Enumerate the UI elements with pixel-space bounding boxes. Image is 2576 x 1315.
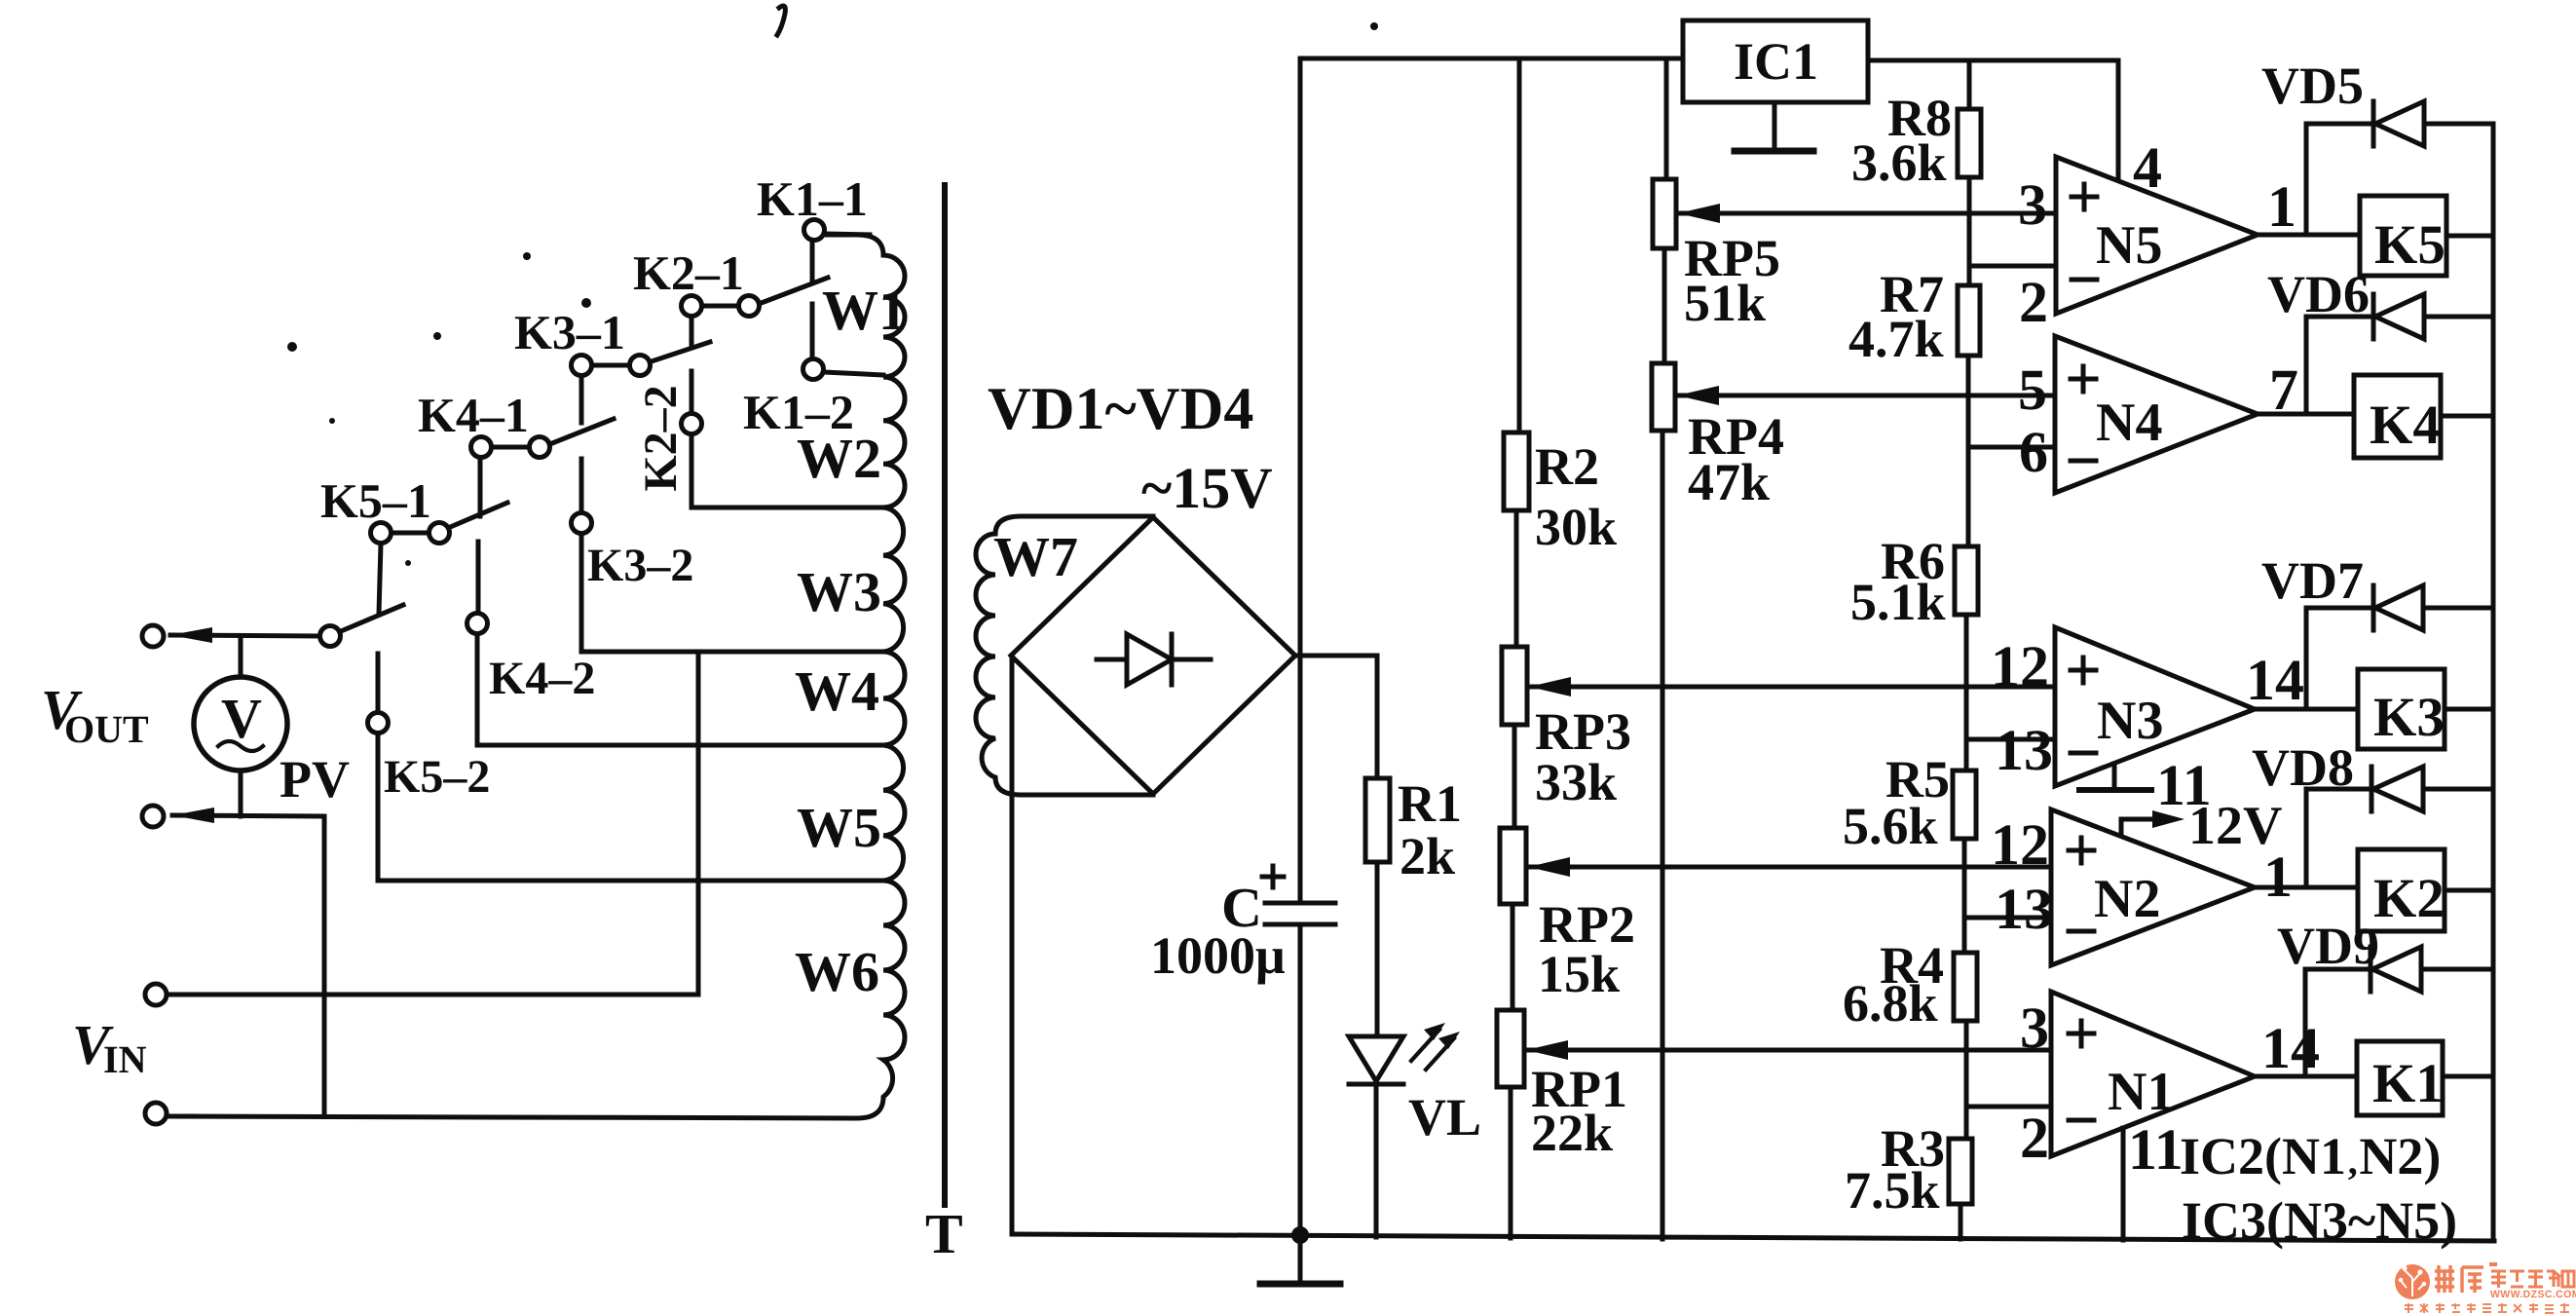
wire K4-2 to winding tap xyxy=(477,634,883,745)
svg-text:W5: W5 xyxy=(797,796,881,859)
label R8 3.6k xyxy=(1851,89,1952,192)
svg-text:K2–2: K2–2 xyxy=(635,385,687,491)
wire bridge right vertex to R1 xyxy=(1295,656,1377,778)
wire VD7 stub xyxy=(2304,608,2309,709)
wire K1-2 to winding tap xyxy=(824,372,883,375)
bottom bus wire xyxy=(1012,1234,2494,1241)
switch K5-2 contact xyxy=(368,713,389,733)
svg-text:30k: 30k xyxy=(1535,498,1617,556)
svg-text:4.7k: 4.7k xyxy=(1848,310,1944,368)
wire RP2 to RP1 xyxy=(1511,904,1515,1010)
wire VOUT lower with arrow xyxy=(172,808,324,823)
resistor R7 xyxy=(1958,285,1980,356)
svg-text:2k: 2k xyxy=(1400,827,1455,885)
op-amp N3 xyxy=(2055,627,2255,786)
svg-text:13: 13 xyxy=(1995,718,2053,782)
svg-text:5.1k: 5.1k xyxy=(1850,573,1946,631)
svg-text:4: 4 xyxy=(2133,135,2162,200)
wire R4 to R3 xyxy=(1964,1021,1969,1139)
wire K4 to bus xyxy=(2441,414,2493,419)
op-amp N4 xyxy=(2055,336,2258,493)
wire R2 chain top xyxy=(1517,58,1522,432)
svg-text:K3: K3 xyxy=(2373,687,2445,748)
wire N1 pin11 to bus xyxy=(2121,1128,2126,1240)
wire R2 to RP3 xyxy=(1514,510,1519,647)
switch K4-2 contact xyxy=(467,614,488,634)
plus N2 xyxy=(2069,838,2094,863)
potentiometer RP1 xyxy=(1497,1010,1524,1087)
wire N3 output xyxy=(2255,707,2358,712)
svg-text:VD9: VD9 xyxy=(2277,917,2379,975)
wire N5 pin2 from chain xyxy=(1969,264,2056,269)
diode VD5 xyxy=(2306,101,2493,146)
resistor R5 xyxy=(1953,770,1976,839)
wire K3-2 to winding tap xyxy=(581,534,883,652)
transformer core xyxy=(942,185,948,1205)
svg-text:K3–2: K3–2 xyxy=(587,540,693,591)
wiper wire RP4 to N4 pin5 xyxy=(1677,386,2055,405)
wire IC1 output to N5 pin4 xyxy=(1868,60,2118,182)
label VOUT xyxy=(41,678,149,751)
wire PV drop to VIN lower xyxy=(322,816,327,1116)
diode VD7 xyxy=(2306,585,2493,630)
wire drop to K4-2 xyxy=(476,542,481,613)
svg-text:W3: W3 xyxy=(797,560,881,623)
svg-text:K1: K1 xyxy=(2372,1053,2444,1114)
svg-text:K4: K4 xyxy=(2370,394,2441,456)
svg-text:IC2(N1‚N2): IC2(N1‚N2) xyxy=(2180,1127,2441,1185)
wire RP5 to RP4 xyxy=(1662,248,1667,363)
resistor R2 xyxy=(1504,432,1529,510)
wire VOUT upper with arrow xyxy=(170,627,320,643)
switch K1-1 top contact xyxy=(804,220,825,241)
switch K2-2 contact xyxy=(682,414,702,434)
svg-text:~15V: ~15V xyxy=(1141,456,1273,520)
wire RP3 to RP2 xyxy=(1512,725,1517,828)
relay K1 xyxy=(2357,1041,2443,1115)
voltmeter PV xyxy=(194,638,287,816)
wire K5 to bus xyxy=(2446,234,2493,239)
op-amp N1 xyxy=(2051,992,2255,1156)
terminal VIN upper xyxy=(145,984,167,1005)
svg-text:VL: VL xyxy=(1408,1088,1481,1146)
transformer primary winding W1-W6 xyxy=(168,235,905,1118)
potentiometer RP5 xyxy=(1653,179,1676,248)
wiper wire RP1 to N1 pin3 xyxy=(1526,1040,2051,1060)
wire N3 pin13 from chain xyxy=(1966,737,2055,742)
plus N4 xyxy=(2071,366,2096,392)
wire VIN upper xyxy=(168,993,698,997)
svg-text:1: 1 xyxy=(2267,174,2296,239)
svg-text:51k: 51k xyxy=(1684,274,1766,332)
svg-text:K5–1: K5–1 xyxy=(320,473,431,528)
diode VD9 xyxy=(2305,947,2493,992)
relay K5 xyxy=(2360,196,2446,276)
svg-text:K2: K2 xyxy=(2373,868,2445,929)
svg-text:N4: N4 xyxy=(2096,393,2162,453)
scan speck 1 xyxy=(777,6,785,35)
svg-text:14: 14 xyxy=(2261,1016,2320,1080)
plus N5 xyxy=(2072,184,2097,209)
wire VD5 stub xyxy=(2304,124,2309,235)
minus N5 xyxy=(2072,278,2097,282)
switch K1-1 blade xyxy=(759,278,828,304)
wire drop below K3-1 xyxy=(579,376,584,423)
svg-text:K3–1: K3–1 xyxy=(514,305,625,359)
potentiometer RP3 xyxy=(1502,647,1527,725)
svg-text:13: 13 xyxy=(1995,877,2053,941)
svg-text:33k: 33k xyxy=(1535,753,1617,811)
potentiometer RP4 xyxy=(1652,363,1675,431)
wire VIN lower to winding bottom xyxy=(168,1114,195,1119)
switch K5-1 contacts xyxy=(371,523,450,544)
diode VD6 xyxy=(2306,294,2493,339)
resistor R6 xyxy=(1955,546,1978,615)
ground IC1 xyxy=(1735,102,1813,151)
label RP4 47k xyxy=(1688,407,1784,511)
wire right bus xyxy=(2491,124,2496,1241)
svg-text:11: 11 xyxy=(2128,1117,2184,1182)
plus N3 xyxy=(2071,657,2096,683)
svg-text:12: 12 xyxy=(1991,634,2049,698)
svg-text:PV: PV xyxy=(280,750,350,808)
op-amp N2 xyxy=(2051,809,2255,965)
svg-text:R1: R1 xyxy=(1398,774,1462,833)
wire N4 output xyxy=(2258,412,2354,417)
LED VL xyxy=(1349,1036,1403,1084)
wire N1 pin2 from chain xyxy=(1966,1105,2051,1109)
wire K5-2 to winding tap xyxy=(378,733,883,881)
wire R5 to R4 xyxy=(1962,839,1967,953)
wire drop below K5-1 xyxy=(379,544,381,614)
minus N2 xyxy=(2069,929,2094,934)
LED arrows xyxy=(1411,1023,1460,1070)
label R2 30k xyxy=(1535,437,1617,556)
wire VD9 stub xyxy=(2303,969,2308,1076)
resistor R8 xyxy=(1958,109,1981,177)
wire drop to K3-2 xyxy=(579,459,584,513)
wiper wire RP3 to N3 pin12 xyxy=(1529,677,2055,696)
wire N2 output xyxy=(2255,885,2358,890)
scan speck 4 xyxy=(433,332,441,340)
label R6 5.1k xyxy=(1850,532,1946,631)
svg-text:VD5: VD5 xyxy=(2261,56,2364,115)
wire N4 pin6 from chain xyxy=(1968,445,2055,450)
wire RP5 drop from top rail xyxy=(1664,58,1669,179)
svg-text:W4: W4 xyxy=(795,659,879,723)
svg-text:VD1~VD4: VD1~VD4 xyxy=(988,376,1253,442)
label R7 4.7k xyxy=(1848,265,1944,368)
svg-text:6: 6 xyxy=(2019,420,2048,484)
minus N1 xyxy=(2069,1118,2094,1123)
label R1 2k xyxy=(1398,774,1462,885)
svg-text:2: 2 xyxy=(2020,1106,2049,1170)
switch K4-1 contacts xyxy=(471,437,550,458)
svg-text:12: 12 xyxy=(1991,812,2049,877)
wire VD8 stub xyxy=(2304,789,2309,887)
svg-text:N5: N5 xyxy=(2096,215,2162,276)
svg-text:W6: W6 xyxy=(795,940,879,1003)
label R5 5.6k xyxy=(1843,750,1950,855)
label RP3 33k xyxy=(1535,702,1631,811)
svg-text:K4–2: K4–2 xyxy=(489,653,595,704)
svg-text:22k: 22k xyxy=(1531,1104,1613,1162)
svg-text:N3: N3 xyxy=(2097,691,2163,751)
transformer secondary winding W7 xyxy=(976,516,1153,795)
potentiometer RP2 xyxy=(1500,828,1526,904)
switch VOUT selector contact xyxy=(320,626,341,647)
wire VIN upper riser to W3-W4 tap xyxy=(696,652,701,995)
svg-text:IC3(N3~N5): IC3(N3~N5) xyxy=(2182,1191,2457,1250)
wire RP4 to bus xyxy=(1661,431,1665,1239)
scan speck 6 xyxy=(329,418,335,424)
svg-text:5.6k: 5.6k xyxy=(1843,797,1938,855)
watermark weiku logo xyxy=(2395,1262,2576,1313)
op-amp N5 xyxy=(2056,157,2258,314)
label RP1 22k xyxy=(1531,1060,1627,1162)
svg-text:12V: 12V xyxy=(2188,796,2282,856)
wire K1-1 contact to winding top xyxy=(825,234,870,235)
wire drop below K2-1 xyxy=(690,317,694,347)
terminal VOUT lower xyxy=(142,806,164,827)
svg-text:WWW.DZSC.COM: WWW.DZSC.COM xyxy=(2490,1289,2576,1300)
relay K3 xyxy=(2358,669,2445,749)
scan speck 5 xyxy=(581,298,591,308)
terminal VIN lower xyxy=(145,1103,167,1124)
plus N1 xyxy=(2069,1021,2094,1046)
wire R6 to R5 xyxy=(1964,615,1969,770)
svg-text:7.5k: 7.5k xyxy=(1845,1161,1940,1220)
svg-text:IN: IN xyxy=(103,1037,147,1081)
wiper wire RP2 to N2 pin12 xyxy=(1528,857,2051,877)
switch VOUT selector blade xyxy=(341,605,403,631)
svg-text:15k: 15k xyxy=(1538,945,1620,1003)
label RP5 51k xyxy=(1684,229,1780,332)
bridge inner diode symbol xyxy=(1097,634,1211,685)
wire drop to K5-2 xyxy=(376,654,381,712)
svg-text:3: 3 xyxy=(2020,996,2049,1060)
wire +15V rail to capacitor xyxy=(1298,656,1303,901)
label VIN xyxy=(72,1013,147,1081)
switch K4-1 blade xyxy=(448,503,507,528)
svg-text:K5–2: K5–2 xyxy=(384,751,490,803)
svg-text:RP3: RP3 xyxy=(1535,702,1631,761)
svg-text:3: 3 xyxy=(2018,172,2047,237)
switch K3-1 blade xyxy=(547,419,614,445)
switch K3-1 contacts xyxy=(572,356,651,376)
wire RP1 to bus xyxy=(1509,1087,1513,1238)
arrow 12V supply xyxy=(2121,810,2184,836)
svg-text:N2: N2 xyxy=(2094,869,2160,929)
wire K2-2 to winding tap xyxy=(691,434,883,507)
wire drop to K1-2 xyxy=(810,304,815,358)
svg-text:47k: 47k xyxy=(1688,453,1770,511)
scan speck 7 xyxy=(405,560,411,566)
svg-text:K4–1: K4–1 xyxy=(418,388,529,442)
switch K1-2 contact xyxy=(803,359,824,380)
wire R8 top drop xyxy=(1967,60,1972,109)
svg-text:N1: N1 xyxy=(2108,1062,2174,1122)
diode VD8 xyxy=(2306,767,2493,811)
svg-text:R2: R2 xyxy=(1535,437,1599,496)
wire drop below K4-1 xyxy=(478,458,483,516)
svg-text:IC1: IC1 xyxy=(1734,32,1818,91)
svg-text:K5: K5 xyxy=(2374,214,2445,276)
svg-text:W1: W1 xyxy=(822,279,907,342)
svg-text:3.6k: 3.6k xyxy=(1851,133,1947,192)
wire bridge left vertex to bottom bus xyxy=(1010,656,1015,1234)
resistor R1 xyxy=(1365,778,1390,862)
svg-text:2: 2 xyxy=(2019,270,2048,334)
wire +15V rail top xyxy=(1300,58,1683,656)
wire K1 to bus xyxy=(2443,1074,2493,1079)
capacitor C xyxy=(1262,866,1335,924)
IC IC1 xyxy=(1683,20,1868,102)
wire drop to K2-2 xyxy=(690,371,694,414)
relay K2 xyxy=(2358,849,2445,931)
terminal VOUT upper xyxy=(142,625,164,647)
wire N5 output xyxy=(2258,233,2360,238)
bridge rectifier VD1-VD4 xyxy=(1011,517,1295,794)
wire N1 output xyxy=(2255,1074,2357,1079)
switch K3-2 contact xyxy=(572,513,592,534)
svg-text:VD7: VD7 xyxy=(2261,551,2364,610)
wire K2 to bus xyxy=(2445,888,2493,893)
scan speck 3 xyxy=(287,342,297,352)
minus N4 xyxy=(2071,459,2096,464)
ground symbol xyxy=(1260,1235,1340,1284)
wire capacitor to bus xyxy=(1298,926,1303,1235)
svg-text:14: 14 xyxy=(2246,648,2304,712)
ground N3 pin11 xyxy=(2079,764,2151,790)
wire R7 to R6 xyxy=(1966,356,1971,546)
svg-text:T: T xyxy=(925,1202,963,1265)
svg-text:W7: W7 xyxy=(993,525,1078,588)
wire K3 to bus xyxy=(2445,707,2493,712)
wire R3 to bus xyxy=(1959,1204,1963,1239)
svg-text:K2–1: K2–1 xyxy=(633,245,744,300)
label RP2 15k xyxy=(1538,895,1635,1003)
scan speck 8 xyxy=(523,252,531,260)
resistor R3 xyxy=(1949,1139,1972,1204)
wire VD6 stub xyxy=(2304,317,2309,414)
wire drop below K1-1 xyxy=(810,241,815,281)
svg-text:5: 5 xyxy=(2018,357,2047,422)
switch K2-1 contacts xyxy=(682,296,760,317)
wire N2 pin13 from chain xyxy=(1965,916,2051,920)
svg-text:6.8k: 6.8k xyxy=(1843,974,1938,1033)
wire R8 to R7 xyxy=(1967,177,1972,285)
svg-text:1000μ: 1000μ xyxy=(1150,926,1286,985)
wire LED to bus xyxy=(1374,1084,1379,1237)
scan speck 2 xyxy=(1370,22,1378,30)
label R4 6.8k xyxy=(1843,936,1944,1033)
minus N3 xyxy=(2071,751,2096,756)
svg-text:OUT: OUT xyxy=(64,707,149,751)
label R3 7.5k xyxy=(1845,1119,1945,1220)
svg-text:W2: W2 xyxy=(797,427,881,490)
switch K2-1 blade xyxy=(649,342,710,362)
wiper wire RP5 to N5 pin3 xyxy=(1678,204,2056,223)
junction dot ground node xyxy=(1291,1226,1309,1244)
wire R1 to LED xyxy=(1375,862,1380,1036)
resistor R4 xyxy=(1954,953,1977,1021)
relay K4 xyxy=(2354,375,2441,458)
